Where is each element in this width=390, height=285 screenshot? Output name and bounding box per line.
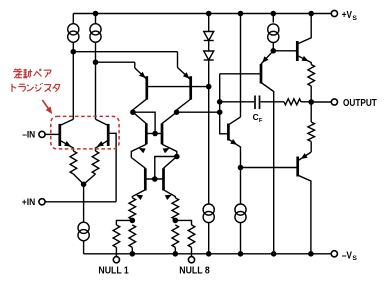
svg-text:NULL 1: NULL 1 <box>98 265 129 276</box>
svg-text:S: S <box>352 255 357 262</box>
svg-text:–IN: –IN <box>22 129 35 139</box>
svg-text:C: C <box>253 112 259 122</box>
svg-text:–V: –V <box>342 249 352 261</box>
svg-text:F: F <box>259 118 263 124</box>
svg-text:OUTPUT: OUTPUT <box>343 98 377 109</box>
svg-text:S: S <box>352 15 357 22</box>
svg-text:NULL 8: NULL 8 <box>179 265 210 276</box>
svg-text:+IN: +IN <box>22 197 36 207</box>
svg-text:+V: +V <box>342 9 352 21</box>
